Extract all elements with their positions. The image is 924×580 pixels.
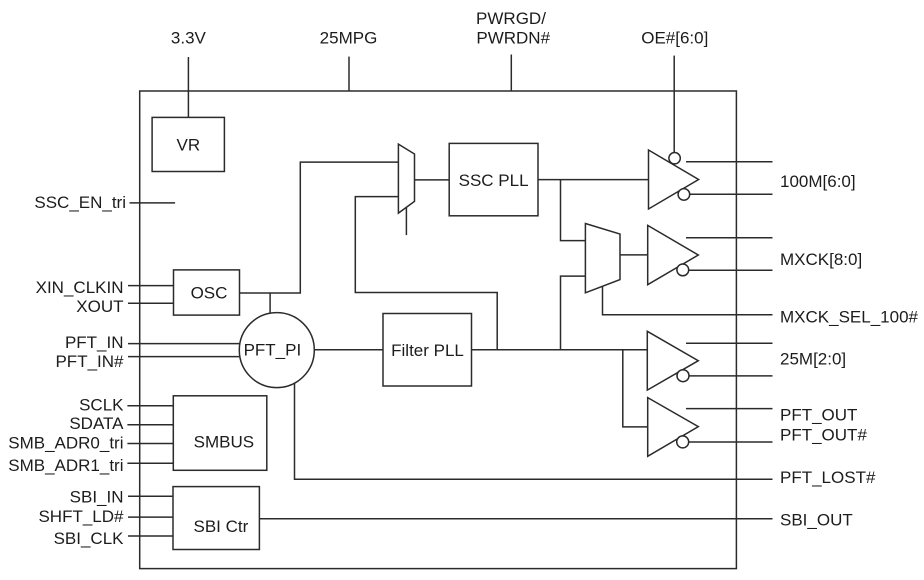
wire SMB_ADR0 stub	[127, 443, 173, 445]
svg-text:25MPG: 25MPG	[320, 28, 378, 47]
buffer B1 enable bubble	[669, 153, 680, 164]
svg-text:OSC: OSC	[191, 284, 228, 303]
buffer B3 output bubble	[677, 370, 689, 382]
wire XOUT stub	[128, 302, 174, 304]
svg-text:Filter PLL: Filter PLL	[391, 341, 464, 360]
wire mux1 output to SSC PLL	[415, 179, 450, 181]
svg-text:PFT_IN#: PFT_IN#	[55, 352, 124, 371]
svg-text:SHFT_LD#: SHFT_LD#	[38, 507, 124, 526]
svg-text:XIN_CLKIN: XIN_CLKIN	[36, 278, 124, 297]
wire B4 output true	[686, 408, 773, 410]
wire SDATA stub	[127, 424, 173, 426]
svg-text:MXCK[8:0]: MXCK[8:0]	[780, 250, 862, 269]
wire PFT_PI to Filter PLL	[314, 349, 383, 351]
svg-text:SBI Ctr: SBI Ctr	[194, 517, 249, 536]
svg-text:SBI_OUT: SBI_OUT	[780, 510, 853, 529]
wire mux2 output to buffer2	[620, 254, 648, 256]
buffer B4 (PFT)	[648, 398, 699, 457]
block OSC	[174, 270, 240, 315]
svg-text:PFT_OUT#: PFT_OUT#	[780, 425, 867, 444]
wire Filter PLL output to buffer3	[472, 349, 648, 351]
block VR	[152, 117, 224, 171]
svg-text:SMB_ADR0_tri: SMB_ADR0_tri	[8, 433, 123, 452]
buffer B2 output bubble	[677, 264, 689, 276]
wire SBI_IN stub	[128, 495, 173, 497]
block SSC PLL	[449, 143, 538, 215]
svg-text:SBI_CLK: SBI_CLK	[54, 529, 125, 548]
svg-text:SCLK: SCLK	[79, 396, 124, 415]
wire B3 output true	[686, 342, 773, 344]
wire SSC PLL output to buffer1	[538, 179, 649, 181]
svg-text:PFT_PI: PFT_PI	[244, 341, 302, 360]
svg-text:OE#[6:0]: OE#[6:0]	[641, 28, 708, 47]
svg-text:PWRDN#: PWRDN#	[476, 28, 550, 47]
wire B2 output true	[686, 237, 773, 239]
wire B1 output true	[686, 161, 773, 163]
svg-text:100M[6:0]: 100M[6:0]	[780, 172, 856, 191]
wire mux2 select MXCK_SEL_100#	[603, 287, 773, 315]
wire OSC output to mux1 input1	[240, 162, 399, 293]
svg-text:MXCK_SEL_100#: MXCK_SEL_100#	[780, 308, 919, 327]
svg-text:PFT_LOST#: PFT_LOST#	[780, 468, 876, 487]
wire XIN_CLKIN stub	[128, 285, 174, 287]
svg-text:SSC PLL: SSC PLL	[459, 171, 529, 190]
buffer B1 output bubble	[678, 189, 690, 201]
chip boundary box	[140, 91, 737, 569]
wire B1 output complement	[690, 193, 773, 195]
wire SSC_EN_tri stub	[130, 202, 176, 204]
wire SCLK stub	[127, 405, 173, 407]
pin label PWRGD/PWRDN#	[476, 9, 551, 48]
wire OE# to enable bubble	[673, 56, 675, 153]
svg-text:25M[2:0]: 25M[2:0]	[780, 350, 846, 369]
wire SHFT_LD# stub	[128, 516, 173, 518]
svg-text:SBI_IN: SBI_IN	[70, 488, 124, 507]
block SMBUS	[173, 396, 266, 471]
svg-text:XOUT: XOUT	[76, 297, 123, 316]
buffer B3 (25M)	[647, 331, 698, 390]
wire SBI_CLK stub	[128, 535, 173, 537]
svg-text:3.3V: 3.3V	[171, 28, 207, 47]
wire PFT_IN stub	[128, 343, 240, 345]
wire branch to buffer4 input	[623, 350, 648, 427]
wire SSC PLL branch to mux2 upper input	[561, 180, 586, 241]
wire mux1 select stub	[405, 207, 407, 235]
wire B3 output complement	[689, 375, 773, 377]
block SBI Ctr	[173, 487, 259, 550]
svg-text:VR: VR	[176, 136, 200, 155]
svg-text:SMB_ADR1_tri: SMB_ADR1_tri	[8, 456, 123, 475]
svg-text:PWRGD/: PWRGD/	[476, 9, 546, 28]
wire B4 output complement	[689, 441, 773, 443]
wire PFT_LOST# from PFT_PI	[295, 383, 773, 479]
mux M2	[585, 224, 620, 293]
svg-text:SSC_EN_tri: SSC_EN_tri	[34, 193, 126, 212]
wire SBI_OUT	[259, 518, 772, 520]
block PFT_PI circle	[239, 313, 314, 388]
wire OSC junction down to PFT_PI	[269, 293, 271, 313]
buffer B1 (100M)	[649, 150, 699, 209]
wire PWRGD stub	[510, 55, 512, 92]
svg-text:PFT_IN: PFT_IN	[65, 333, 124, 352]
wire 3.3V stub	[187, 57, 189, 117]
buffer B2 (MXCK)	[648, 225, 699, 284]
wire PFT_IN# stub	[128, 356, 240, 358]
wire mux1 input2 from filter line	[355, 197, 497, 350]
svg-text:PFT_OUT: PFT_OUT	[780, 405, 857, 424]
svg-text:SDATA: SDATA	[69, 414, 124, 433]
wire SMB_ADR1 stub	[127, 462, 173, 464]
wire branch to mux2 lower input	[561, 276, 586, 350]
mux M1	[398, 144, 414, 213]
svg-text:SMBUS: SMBUS	[194, 432, 254, 451]
buffer B4 output bubble	[677, 436, 689, 448]
wire 25MPG stub	[348, 57, 350, 91]
wire B2 output complement	[689, 269, 773, 271]
block Filter PLL	[383, 314, 472, 387]
